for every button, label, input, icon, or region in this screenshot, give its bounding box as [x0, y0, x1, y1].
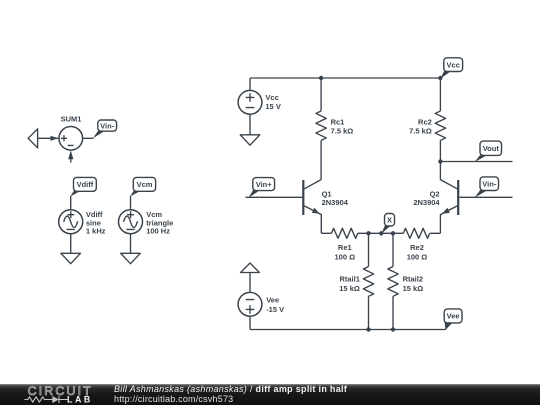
svg-text:2N3904: 2N3904 — [322, 198, 349, 207]
svg-text:Vee: Vee — [447, 312, 460, 321]
svg-text:1 kHz: 1 kHz — [86, 227, 106, 236]
svg-text:Re1: Re1 — [338, 243, 352, 252]
svg-text:7.5 kΩ: 7.5 kΩ — [409, 126, 432, 135]
svg-text:2N3904: 2N3904 — [413, 198, 440, 207]
svg-text:Vcc: Vcc — [447, 60, 460, 69]
svg-text:Rtail1: Rtail1 — [339, 274, 359, 283]
svg-text:Rc2: Rc2 — [418, 117, 432, 126]
svg-text:Rtail2: Rtail2 — [403, 274, 423, 283]
svg-text:15 V: 15 V — [265, 102, 280, 111]
svg-text:Vin-: Vin- — [482, 179, 497, 188]
svg-text:Vdiff: Vdiff — [77, 180, 94, 189]
svg-text:LAB: LAB — [67, 394, 93, 404]
svg-text:15 kΩ: 15 kΩ — [403, 284, 424, 293]
svg-text:7.5 kΩ: 7.5 kΩ — [331, 126, 354, 135]
svg-text:100 Hz: 100 Hz — [146, 227, 170, 236]
svg-text:Vcm: Vcm — [137, 180, 153, 189]
svg-text:Vcc: Vcc — [265, 93, 278, 102]
svg-text:100 Ω: 100 Ω — [407, 253, 428, 262]
svg-text:Vin+: Vin+ — [256, 180, 273, 189]
svg-text:15 kΩ: 15 kΩ — [339, 284, 360, 293]
svg-text:Vin-: Vin- — [100, 121, 115, 130]
svg-text:Re2: Re2 — [410, 243, 424, 252]
svg-text:100 Ω: 100 Ω — [334, 253, 355, 262]
svg-text:-15 V: -15 V — [266, 305, 284, 314]
svg-text:Vout: Vout — [483, 144, 500, 153]
svg-text:Rc1: Rc1 — [331, 117, 345, 126]
svg-text:X: X — [387, 216, 392, 225]
svg-text:Vee: Vee — [266, 296, 279, 305]
svg-text:SUM1: SUM1 — [61, 114, 82, 123]
